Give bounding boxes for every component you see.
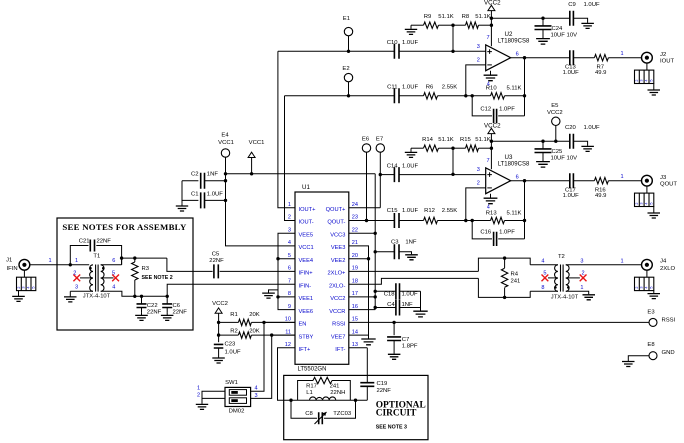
svg-text:14: 14: [352, 329, 358, 335]
wire T1 pin4: [101, 291, 135, 296]
svg-text:C5: C5: [212, 251, 220, 257]
junction: [464, 94, 467, 97]
svg-text:51.1K: 51.1K: [438, 137, 453, 143]
capacitor C10 1.0UF: [387, 40, 419, 59]
junction: [523, 219, 526, 222]
svg-text:4: 4: [112, 285, 115, 291]
junction: [451, 24, 454, 27]
svg-text:R14: R14: [422, 137, 434, 143]
transformer T2 JTX-4-10T: [551, 254, 579, 300]
connector J4 2XLO: [642, 259, 676, 272]
wire RSSI to E3: [349, 321, 649, 323]
svg-text:7: 7: [486, 35, 489, 41]
ground (R14): [405, 148, 417, 157]
ground (C22): [135, 313, 148, 321]
wire to U1 pin 7 IFIN-: [167, 284, 295, 296]
svg-text:3: 3: [640, 202, 644, 204]
wire U1 pin5 VEE4: [278, 258, 295, 260]
IC U1 LT5502GN: [285, 184, 358, 373]
capacitor C20 1.0UF: [565, 125, 600, 149]
svg-text:22NF: 22NF: [377, 388, 392, 394]
switch SW1 DM02: [225, 380, 251, 414]
terminal E3 RSSI: [647, 309, 675, 326]
T1 pin 5 no-connect: [101, 271, 119, 282]
J4 shield pins: [635, 270, 654, 290]
svg-text:1.0UF: 1.0UF: [563, 193, 579, 199]
svg-text:R17: R17: [306, 383, 317, 389]
capacitor C25 10UF 10V: [535, 141, 578, 161]
wire QOUT+ to C14: [380, 174, 394, 176]
svg-text:VEE7: VEE7: [331, 334, 346, 340]
svg-text:22NH: 22NH: [330, 390, 345, 396]
svg-text:E4: E4: [221, 133, 229, 139]
wire U1 pin20 VEE2: [349, 258, 369, 260]
resistor R6 2.55K: [399, 84, 466, 99]
junction: [374, 250, 377, 253]
pin number 1 (J4 line): [620, 258, 623, 264]
svg-text:7: 7: [288, 278, 291, 284]
svg-text:STBY: STBY: [299, 334, 314, 340]
svg-text:C24: C24: [552, 26, 564, 32]
svg-text:QOUT+: QOUT+: [326, 207, 346, 213]
wire T1 pin6: [101, 264, 122, 266]
wire J1 to T1 pin 1: [30, 264, 89, 266]
svg-text:3: 3: [477, 167, 480, 173]
junction: [392, 321, 395, 324]
svg-text:LT1809CS8: LT1809CS8: [498, 39, 530, 45]
resistor R2 20K: [219, 328, 295, 338]
wire E4 to U1 pin 4 VCC1: [226, 157, 296, 246]
ground (T2): [583, 295, 596, 300]
svg-text:2: 2: [635, 287, 639, 289]
svg-text:VEE3: VEE3: [331, 245, 346, 251]
svg-text:5: 5: [649, 287, 653, 289]
svg-text:2XLO-: 2XLO-: [329, 283, 346, 289]
svg-text:VEE4: VEE4: [299, 258, 314, 264]
svg-text:2: 2: [477, 57, 480, 63]
svg-text:15: 15: [352, 317, 358, 323]
svg-text:QOUT-: QOUT-: [327, 220, 345, 226]
terminal E6: [362, 137, 371, 221]
svg-text:4: 4: [288, 240, 291, 246]
svg-text:IFT-: IFT-: [335, 347, 345, 353]
svg-text:VEE2: VEE2: [331, 258, 346, 264]
svg-text:C1: C1: [191, 192, 199, 198]
junction: [374, 295, 377, 298]
svg-text:R10: R10: [486, 86, 498, 92]
svg-text:2: 2: [477, 180, 480, 186]
wire T2 pin 1 to ground: [566, 291, 589, 294]
svg-text:12: 12: [285, 342, 291, 348]
svg-text:13: 13: [352, 342, 358, 348]
svg-text:2.55K: 2.55K: [442, 84, 457, 90]
junction: [276, 257, 279, 260]
svg-text:VCC2: VCC2: [484, 122, 501, 129]
ground (C23): [212, 356, 225, 364]
resistor R3 SEE NOTE 2: [132, 258, 173, 296]
wire U1 pin23 QOUT- to C15: [349, 220, 395, 222]
op-amp U3 LT1809CS8: [486, 154, 530, 194]
svg-text:1NF: 1NF: [402, 302, 414, 308]
svg-text:7: 7: [486, 158, 489, 164]
wire T2 pin 8: [530, 290, 558, 292]
svg-text:C21: C21: [79, 238, 90, 244]
junction: [276, 295, 279, 298]
T2 pin 3 number: [580, 258, 583, 264]
resistor R17 241: [298, 377, 351, 400]
wire to C5: [167, 258, 213, 271]
svg-text:1.0UF: 1.0UF: [584, 125, 600, 131]
svg-text:2: 2: [197, 393, 200, 399]
svg-text:VEE6: VEE6: [299, 309, 314, 315]
svg-text:1.0UF: 1.0UF: [402, 40, 418, 46]
svg-text:10UF 10V: 10UF 10V: [551, 156, 578, 162]
svg-text:241: 241: [511, 279, 521, 285]
svg-text:C3: C3: [391, 239, 399, 245]
junction: [490, 17, 493, 20]
svg-text:QOUT: QOUT: [660, 182, 677, 188]
svg-text:C2: C2: [191, 171, 199, 177]
svg-text:5: 5: [112, 271, 115, 277]
wire U1 pin13 IFT-: [349, 347, 368, 349]
capacitor C5 22NF: [209, 251, 224, 278]
svg-text:1NF: 1NF: [405, 239, 417, 245]
svg-text:T1: T1: [93, 254, 100, 260]
junction: [451, 173, 454, 176]
transformer T1 JTX-4-10T: [83, 254, 111, 300]
svg-text:1.8PF: 1.8PF: [402, 343, 418, 349]
junction: [367, 257, 370, 260]
capacitor C21 22NF: [79, 238, 112, 251]
svg-text:1.0UF: 1.0UF: [225, 350, 241, 356]
svg-text:23: 23: [352, 215, 358, 221]
svg-text:C12: C12: [480, 106, 491, 112]
svg-text:51.1K: 51.1K: [475, 137, 490, 143]
ground (R9): [405, 25, 417, 34]
junction: [140, 295, 143, 298]
svg-text:CIRCUIT: CIRCUIT: [376, 409, 417, 419]
wire U1 pin1 IOUT+ riser: [278, 51, 295, 208]
svg-text:3: 3: [640, 287, 644, 289]
resistor R8 51.1K: [453, 14, 491, 28]
wire U3 inverting input: [466, 188, 486, 221]
svg-text:C11: C11: [387, 84, 397, 90]
svg-text:2: 2: [582, 271, 585, 277]
wire SW1 pins 1 2 to ground: [202, 391, 225, 404]
svg-text:VCCR: VCCR: [329, 309, 345, 315]
wire R9 tap down: [452, 25, 454, 51]
T2 pin 2 no-connect: [566, 271, 587, 282]
capacitor C1 1.0UF: [182, 192, 226, 209]
capacitor C2 1NF: [182, 171, 226, 188]
SW1 pin numbers: [197, 385, 258, 399]
svg-text:3: 3: [640, 79, 644, 81]
svg-text:241: 241: [330, 383, 340, 389]
svg-text:E7: E7: [376, 137, 383, 143]
junction: [490, 140, 493, 143]
svg-text:1: 1: [620, 258, 623, 264]
svg-text:16: 16: [352, 304, 358, 310]
svg-text:VCC2: VCC2: [212, 301, 228, 307]
junction: [224, 179, 227, 182]
svg-text:6: 6: [288, 266, 291, 272]
svg-text:E1: E1: [343, 16, 350, 22]
svg-text:R8: R8: [462, 14, 470, 20]
capacitor C16 1.0PF: [472, 221, 524, 247]
wire C5 to U1 pin 6 IFIN+: [220, 270, 295, 272]
svg-text:9: 9: [288, 304, 291, 310]
svg-text:3: 3: [254, 393, 257, 399]
capacitor C23 1.0UF: [214, 342, 241, 356]
resistor R10 5.11K: [466, 86, 525, 99]
wire U1 pin16 VCCR: [349, 309, 375, 311]
resistor R15 51.1K: [453, 137, 491, 151]
power symbol VCC2 (R1 R2): [212, 301, 228, 342]
capacitor C14 1.0UF: [387, 163, 419, 182]
junction: [503, 296, 506, 299]
svg-text:1: 1: [620, 174, 623, 180]
capacitor C24 10UF 10V: [535, 18, 578, 38]
svg-text:U1: U1: [302, 184, 310, 191]
wire VEE rail in box: [135, 295, 167, 297]
svg-text:R2: R2: [230, 328, 238, 334]
svg-text:4: 4: [27, 287, 31, 289]
svg-text:R13: R13: [486, 210, 498, 216]
power symbol VCC2: [484, 0, 501, 46]
ground (J3 shield): [648, 207, 661, 219]
svg-text:J1: J1: [6, 258, 12, 264]
wire U1 pin19 2XLO+: [349, 270, 479, 272]
svg-text:1.0UF: 1.0UF: [402, 163, 418, 169]
svg-text:LT1809CS8: LT1809CS8: [498, 162, 530, 168]
junction: [471, 94, 474, 97]
svg-text:IFT+: IFT+: [299, 347, 312, 353]
wire pin6 node: [122, 258, 167, 265]
svg-text:1: 1: [620, 51, 623, 57]
svg-text:22NF: 22NF: [209, 258, 224, 264]
capacitor C22 22NF: [137, 296, 162, 315]
svg-text:LT5502GN: LT5502GN: [298, 366, 327, 372]
svg-text:R1: R1: [230, 312, 238, 318]
wire U1 pin2 IOUT- riser: [285, 96, 296, 221]
junction: [464, 219, 467, 222]
svg-text:2: 2: [288, 215, 291, 221]
terminal E7: [376, 137, 385, 208]
U2 pin numbers: [477, 35, 519, 87]
svg-text:1: 1: [580, 285, 583, 291]
svg-text:IFIN+: IFIN+: [299, 271, 314, 277]
junction: [120, 256, 123, 259]
svg-text:C10: C10: [387, 40, 399, 46]
wire R4 loop top: [478, 258, 530, 271]
svg-text:L1: L1: [306, 390, 313, 396]
svg-text:IOUT+: IOUT+: [299, 207, 317, 213]
resistor R7 49.9: [573, 55, 641, 77]
resistor R9 51.1K: [411, 14, 454, 29]
svg-text:3: 3: [75, 285, 78, 291]
ground (J2 shield): [648, 84, 661, 96]
svg-text:4: 4: [645, 202, 649, 204]
junction: [217, 333, 220, 336]
wire C1 C2 left: [181, 181, 183, 204]
svg-text:SEE NOTES FOR ASSEMBLY: SEE NOTES FOR ASSEMBLY: [62, 222, 187, 232]
svg-text:VEE1: VEE1: [299, 296, 314, 302]
junction: [133, 256, 136, 259]
ground (C20): [581, 146, 594, 151]
wire U3 output to feedback: [524, 181, 526, 221]
capacitor C9 1.0UF: [568, 2, 600, 26]
svg-text:1.0UF: 1.0UF: [402, 208, 418, 214]
assembly note box: [57, 218, 193, 330]
power symbol VCC1: [248, 140, 264, 174]
svg-text:1.0UF: 1.0UF: [563, 70, 579, 76]
junction: [451, 50, 454, 53]
wire VCC2 to C20: [491, 140, 569, 142]
pin number 1 (J1): [48, 258, 51, 264]
svg-text:TZC03: TZC03: [333, 411, 352, 417]
svg-text:U2: U2: [505, 31, 513, 38]
svg-text:SEE NOTE 3: SEE NOTE 3: [376, 425, 407, 431]
ground (C1 C2): [176, 203, 188, 211]
T1 pin 4 number: [112, 285, 115, 291]
resistor R12 2.55K: [399, 208, 466, 224]
svg-text:C6: C6: [173, 303, 181, 309]
optional circuit box: [284, 375, 428, 439]
svg-text:5: 5: [543, 271, 546, 277]
wire IOUT+ to C10: [278, 50, 395, 52]
svg-text:SW1: SW1: [225, 380, 238, 386]
capacitor C6 22NF: [162, 296, 187, 315]
svg-text:E6: E6: [362, 137, 370, 143]
wire EN to SW1 pin 4: [251, 322, 295, 391]
svg-text:VCC1: VCC1: [299, 245, 314, 251]
ground (T1 pin 3): [64, 291, 77, 302]
capacitor C7 1.8PF: [387, 322, 418, 353]
junction: [347, 50, 350, 53]
svg-text:RSSI: RSSI: [332, 322, 346, 328]
junction: [554, 140, 557, 143]
svg-text:C7: C7: [402, 337, 410, 343]
svg-text:19: 19: [352, 266, 358, 272]
svg-text:VCC2: VCC2: [484, 0, 501, 6]
wire STBY to SW1 pin 3: [251, 335, 295, 398]
svg-text:2XLO: 2XLO: [660, 266, 675, 272]
svg-text:20K: 20K: [249, 312, 260, 318]
wire VEE bus left: [278, 233, 295, 309]
svg-text:E8: E8: [647, 342, 655, 348]
svg-text:4: 4: [645, 287, 649, 289]
trimmer capacitor C8 TZC03: [291, 400, 356, 424]
svg-text:SEE NOTE 2: SEE NOTE 2: [142, 275, 173, 281]
ground (C18 C4): [413, 311, 427, 317]
svg-text:C20: C20: [565, 125, 577, 131]
svg-text:C22: C22: [147, 303, 158, 309]
wire C14 to U3 +: [399, 174, 486, 176]
svg-text:8: 8: [541, 285, 544, 291]
svg-text:8: 8: [288, 291, 291, 297]
svg-text:24: 24: [352, 202, 358, 208]
svg-text:4: 4: [645, 79, 649, 81]
svg-text:1.0UF: 1.0UF: [584, 2, 600, 8]
T2 pin 8 number: [541, 285, 544, 291]
power symbol VCC2: [484, 122, 501, 169]
svg-text:E3: E3: [647, 309, 655, 315]
resistor R14 51.1K: [411, 137, 454, 152]
ground (J1 shield): [12, 291, 25, 302]
T1 pin 1 number: [75, 258, 78, 264]
svg-text:51.1K: 51.1K: [475, 14, 490, 20]
ground (SW1): [196, 404, 208, 409]
capacitor C4 1NF: [375, 300, 420, 316]
capacitor C11 1.0UF: [387, 84, 418, 103]
svg-text:1: 1: [75, 258, 78, 264]
ground (J4 shield): [648, 291, 661, 299]
capacitor C13 1.0UF: [563, 50, 579, 76]
wire VCC rail drop right of U1: [374, 174, 376, 310]
capacitor C12 1.0PF: [472, 96, 524, 123]
ground (U1 left VEE): [262, 290, 278, 298]
junction: [262, 321, 265, 324]
svg-text:VCC3: VCC3: [330, 233, 345, 239]
capacitor C17 1.0UF: [563, 173, 579, 199]
svg-text:18: 18: [352, 278, 358, 284]
capacitor C19 22NF: [360, 348, 391, 400]
svg-text:4: 4: [254, 385, 257, 391]
svg-text:J4: J4: [660, 259, 667, 265]
wire VCC2 to C9: [491, 17, 569, 19]
svg-text:J2: J2: [660, 52, 666, 58]
ground (C6): [161, 313, 174, 321]
T2 pin 5 no-connect: [542, 271, 558, 282]
svg-text:49.9: 49.9: [595, 70, 606, 76]
junction: [270, 333, 273, 336]
wire C18 C4 right to ground: [420, 291, 422, 310]
connector J1 IFIN: [6, 258, 30, 273]
svg-text:R12: R12: [424, 208, 435, 214]
svg-text:2: 2: [17, 287, 21, 289]
junction: [354, 399, 357, 402]
wire C21 right: [96, 246, 121, 265]
junction: [541, 140, 544, 143]
svg-text:JTX-4-10T: JTX-4-10T: [551, 294, 579, 300]
junction: [224, 172, 227, 175]
junction: [523, 94, 526, 97]
inductor L1 22NH: [306, 390, 345, 400]
capacitor C15 1.0UF: [387, 208, 419, 228]
junction: [541, 17, 544, 20]
junction: [490, 24, 493, 27]
junction: [365, 219, 368, 222]
svg-text:3: 3: [288, 228, 291, 234]
ground (U1 VEE7): [361, 335, 375, 345]
svg-text:1: 1: [48, 258, 51, 264]
svg-text:VCC2: VCC2: [330, 296, 345, 302]
svg-text:RSSI: RSSI: [662, 318, 676, 324]
ground (U3): [484, 194, 498, 204]
svg-text:JTX-4-10T: JTX-4-10T: [83, 294, 111, 300]
svg-text:2.55K: 2.55K: [442, 208, 457, 214]
svg-text:11: 11: [285, 329, 291, 335]
U3 pin numbers: [477, 158, 519, 210]
svg-text:C19: C19: [377, 381, 388, 387]
wire VCC1 rail: [226, 173, 376, 175]
svg-text:C15: C15: [387, 208, 399, 214]
junction: [217, 321, 220, 324]
svg-text:3: 3: [580, 258, 583, 264]
svg-text:IOUT: IOUT: [660, 59, 674, 65]
svg-text:22: 22: [352, 228, 358, 234]
svg-text:5: 5: [288, 253, 291, 259]
